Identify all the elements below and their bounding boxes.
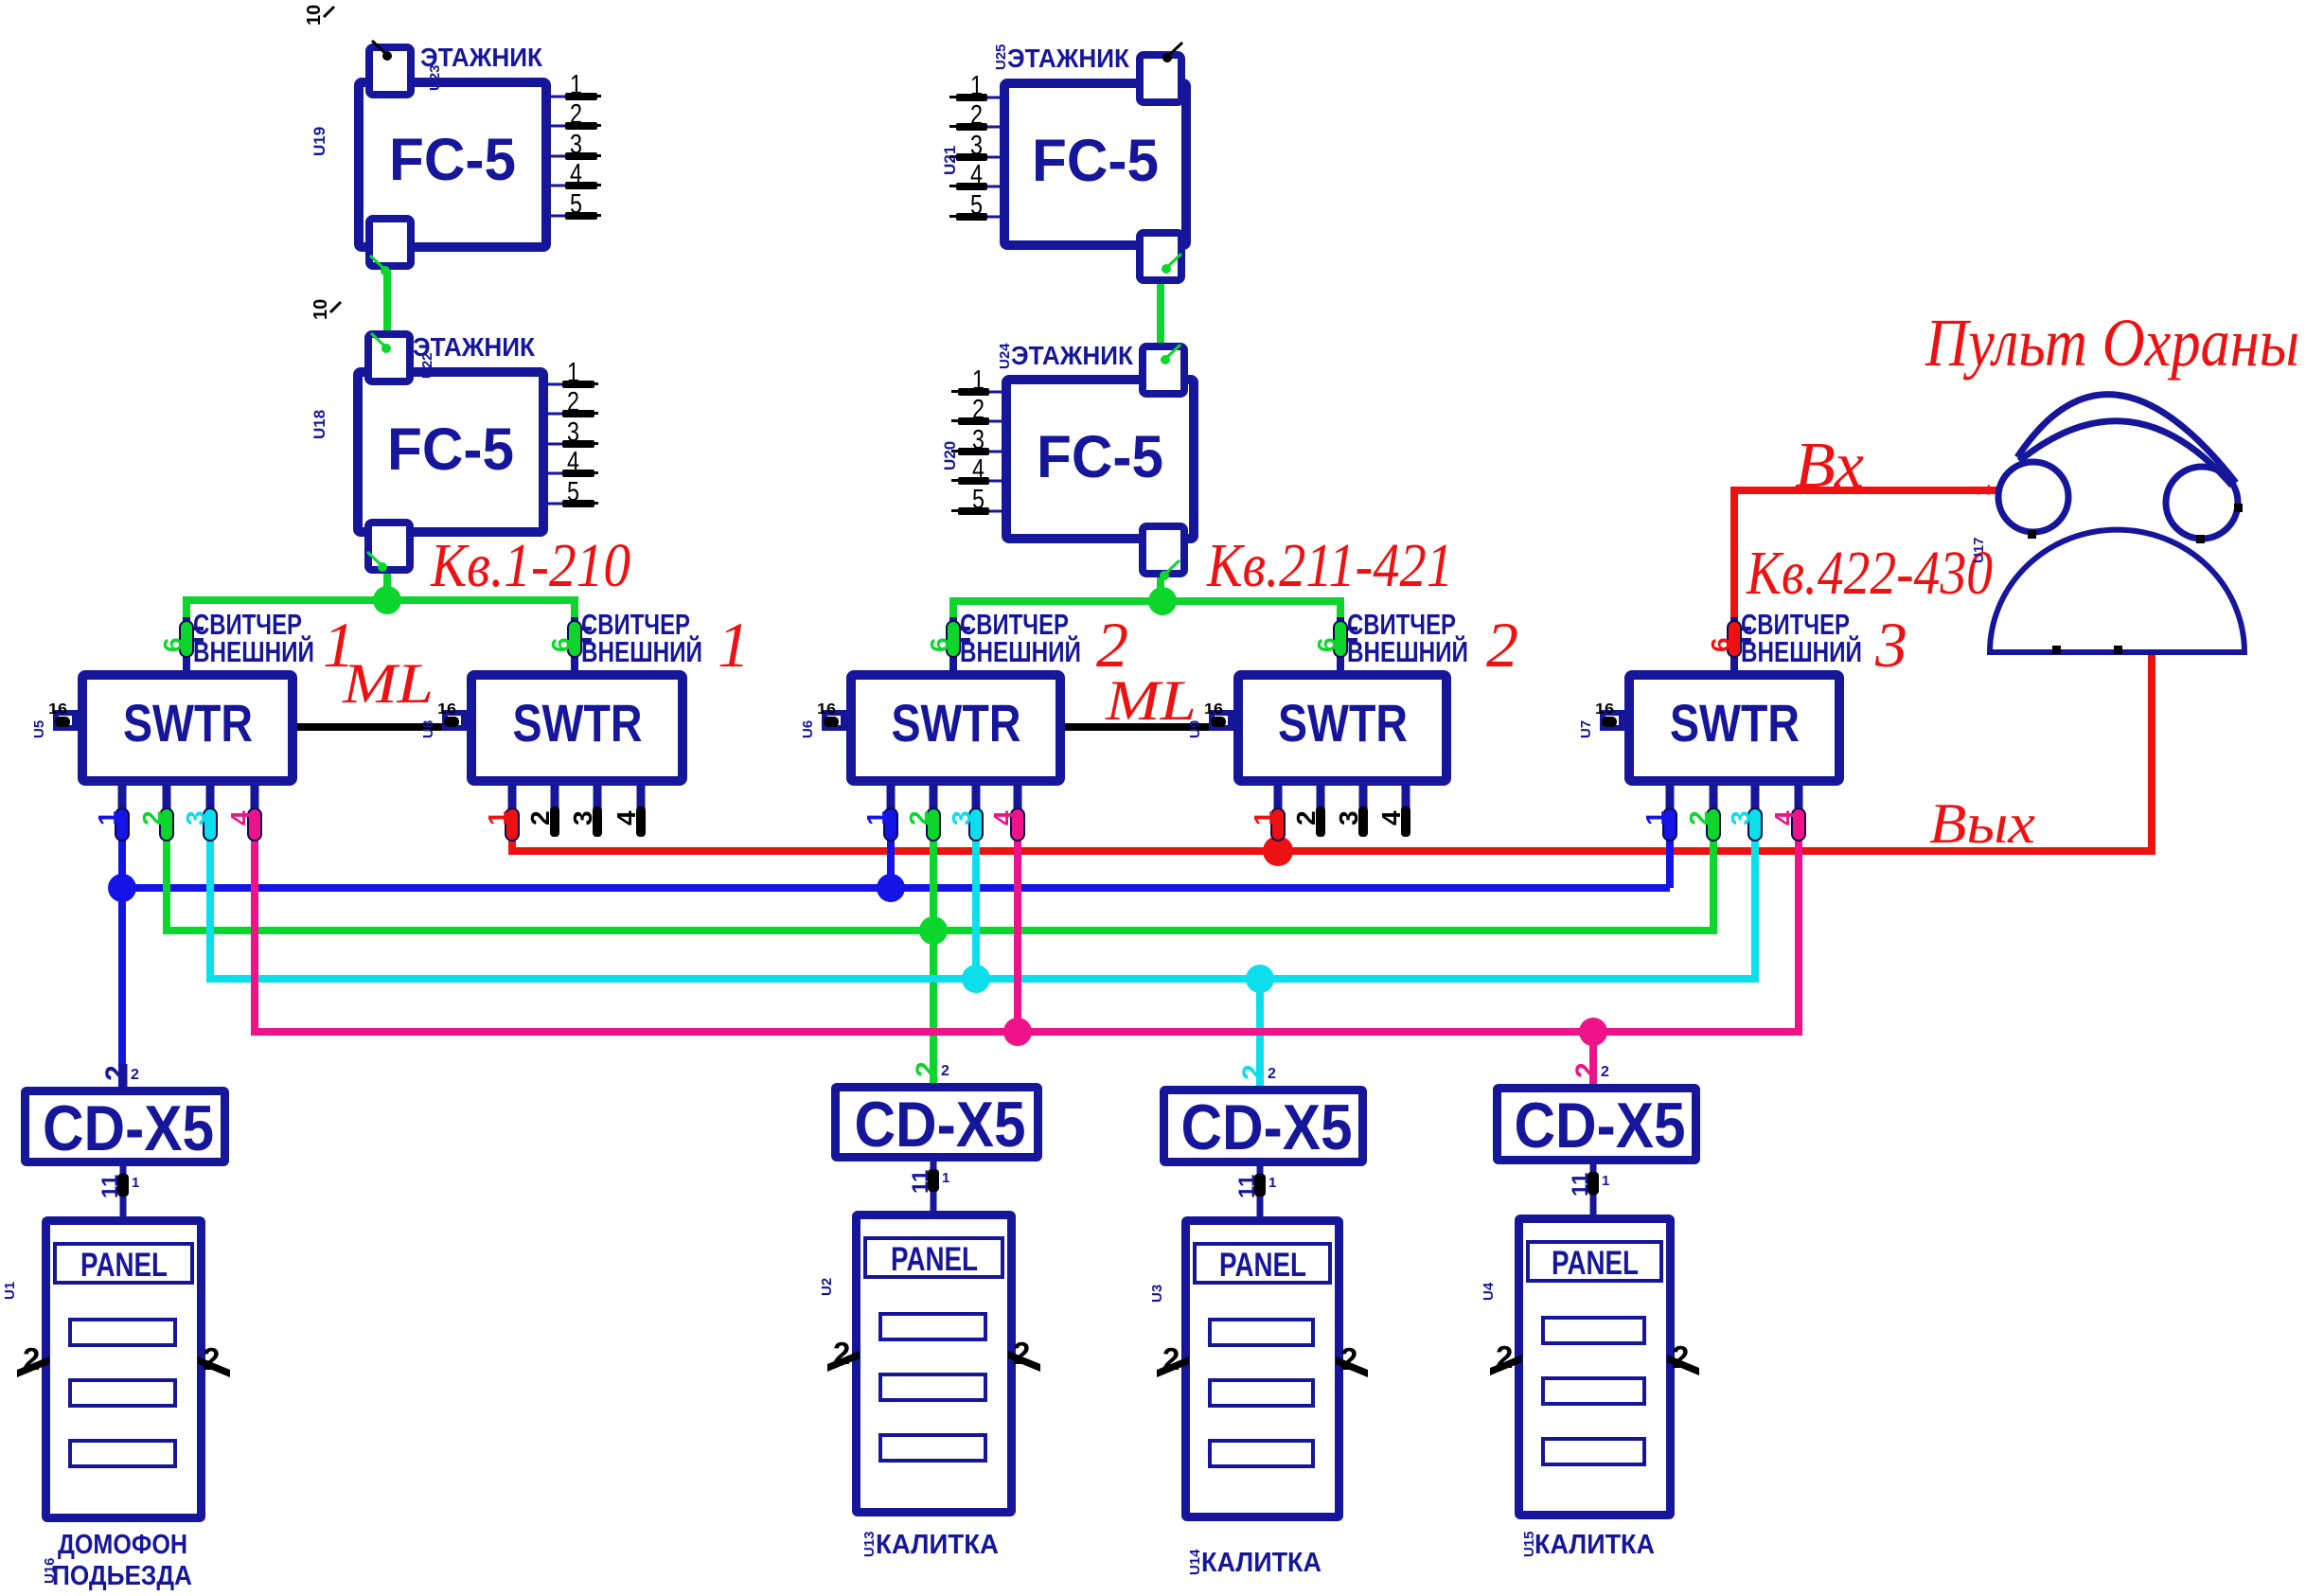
svg-text:2: 2: [1601, 1064, 1609, 1080]
svg-text:10: 10: [310, 299, 331, 320]
svg-text:U7: U7: [1578, 720, 1594, 738]
svg-text:3: 3: [1874, 609, 1907, 681]
svg-text:4: 4: [570, 159, 582, 189]
svg-text:2: 2: [833, 1336, 850, 1371]
svg-text:3: 3: [972, 425, 984, 455]
svg-text:Кв.211-421: Кв.211-421: [1206, 531, 1453, 600]
svg-text:1: 1: [567, 358, 579, 388]
svg-text:U18: U18: [310, 410, 328, 439]
svg-text:КАЛИТКА: КАЛИТКА: [1201, 1548, 1322, 1578]
svg-text:1: 1: [718, 609, 750, 681]
svg-text:2: 2: [1570, 1062, 1602, 1078]
svg-text:ЭТАЖНИК: ЭТАЖНИК: [1011, 341, 1134, 370]
svg-text:4: 4: [225, 810, 255, 825]
svg-text:2: 2: [1162, 1341, 1180, 1376]
svg-text:FC-5: FC-5: [1037, 424, 1163, 490]
svg-text:16: 16: [48, 701, 67, 718]
svg-text:U17: U17: [1971, 537, 1987, 563]
svg-text:Кв.1-210: Кв.1-210: [430, 531, 630, 600]
svg-text:1: 1: [972, 365, 984, 396]
svg-text:2: 2: [972, 395, 984, 425]
svg-text:16: 16: [817, 701, 836, 718]
svg-text:6: 6: [546, 637, 576, 652]
svg-text:2: 2: [137, 810, 167, 825]
svg-text:1: 1: [942, 1170, 949, 1186]
svg-text:4: 4: [972, 454, 984, 485]
svg-text:2: 2: [567, 387, 579, 417]
svg-text:4: 4: [1376, 810, 1406, 825]
svg-text:3: 3: [570, 130, 582, 160]
svg-text:CD-X5: CD-X5: [1515, 1090, 1686, 1162]
svg-text:ЭТАЖНИК: ЭТАЖНИК: [1007, 44, 1130, 73]
svg-text:U3: U3: [1149, 1285, 1165, 1303]
svg-text:U8: U8: [420, 720, 436, 738]
svg-text:PANEL: PANEL: [80, 1247, 168, 1284]
svg-text:U19: U19: [310, 127, 328, 156]
svg-text:6: 6: [158, 637, 187, 652]
svg-text:Кв.422-430: Кв.422-430: [1746, 539, 1993, 608]
svg-text:U24: U24: [997, 343, 1013, 369]
svg-text:1: 1: [970, 71, 983, 101]
svg-text:1: 1: [1971, 485, 1995, 496]
svg-text:SWTR: SWTR: [123, 693, 253, 753]
svg-text:U23: U23: [427, 64, 443, 91]
svg-text:ВНЕШНИЙ: ВНЕШНИЙ: [193, 634, 314, 668]
svg-text:U5: U5: [31, 720, 47, 738]
svg-text:2: 2: [1291, 810, 1321, 825]
svg-text:10: 10: [304, 5, 325, 26]
svg-text:4: 4: [567, 447, 579, 477]
svg-text:Вх: Вх: [1795, 429, 1864, 501]
svg-text:2: 2: [570, 99, 582, 130]
svg-text:1: 1: [1249, 810, 1278, 825]
svg-text:11: 11: [1568, 1173, 1593, 1197]
svg-text:U20: U20: [941, 441, 959, 470]
svg-text:1: 1: [1641, 810, 1670, 825]
svg-text:U9: U9: [1187, 720, 1203, 738]
svg-text:2: 2: [970, 100, 983, 131]
svg-text:3: 3: [1726, 810, 1755, 825]
svg-text:FC-5: FC-5: [387, 417, 514, 483]
svg-text:2: 2: [1340, 1341, 1357, 1376]
svg-text:3: 3: [947, 810, 976, 825]
svg-text:U22: U22: [419, 352, 435, 379]
svg-text:2: 2: [941, 1063, 949, 1079]
svg-text:4: 4: [970, 160, 983, 190]
svg-text:ПОДЬЕЗДА: ПОДЬЕЗДА: [52, 1561, 192, 1591]
svg-text:U21: U21: [941, 146, 959, 175]
svg-text:CD-X5: CD-X5: [1181, 1091, 1353, 1163]
svg-text:5: 5: [972, 485, 984, 515]
svg-text:SWTR: SWTR: [892, 693, 1021, 753]
svg-text:3: 3: [970, 131, 983, 161]
svg-text:U13: U13: [861, 1531, 878, 1557]
svg-text:2: 2: [100, 1065, 132, 1081]
svg-text:5: 5: [567, 477, 579, 507]
svg-text:1: 1: [1268, 1175, 1276, 1191]
svg-text:16: 16: [1204, 701, 1223, 718]
svg-text:FC-5: FC-5: [389, 127, 516, 193]
svg-text:PANEL: PANEL: [1219, 1247, 1306, 1284]
svg-text:4: 4: [612, 810, 641, 825]
svg-text:1: 1: [861, 810, 891, 825]
svg-text:16: 16: [437, 701, 456, 718]
svg-text:Вых: Вых: [1929, 792, 2035, 855]
svg-text:SWTR: SWTR: [1278, 693, 1408, 753]
svg-text:3: 3: [181, 810, 210, 825]
svg-text:4: 4: [1769, 810, 1799, 825]
svg-text:ВНЕШНИЙ: ВНЕШНИЙ: [960, 634, 1081, 668]
svg-text:2: 2: [911, 1061, 942, 1077]
svg-text:Пульт Охраны: Пульт Охраны: [1925, 305, 2299, 381]
svg-text:U16: U16: [42, 1557, 58, 1584]
svg-text:ВНЕШНИЙ: ВНЕШНИЙ: [581, 634, 702, 668]
svg-text:U15: U15: [1521, 1531, 1537, 1557]
svg-text:3: 3: [1334, 810, 1363, 825]
svg-text:2: 2: [131, 1067, 139, 1083]
svg-text:5: 5: [970, 190, 983, 221]
svg-text:ML: ML: [1105, 669, 1197, 732]
svg-text:11: 11: [1234, 1175, 1260, 1198]
svg-text:1: 1: [93, 810, 122, 825]
svg-text:2: 2: [1237, 1064, 1268, 1080]
svg-text:11: 11: [98, 1175, 123, 1198]
svg-text:2: 2: [1684, 810, 1713, 825]
svg-text:PANEL: PANEL: [891, 1241, 978, 1278]
svg-text:2: 2: [1496, 1339, 1513, 1374]
svg-text:1: 1: [1602, 1173, 1609, 1189]
svg-text:16: 16: [1595, 701, 1614, 718]
svg-text:3: 3: [567, 417, 579, 448]
svg-text:2: 2: [203, 1341, 220, 1376]
svg-text:U6: U6: [800, 720, 816, 738]
svg-text:1: 1: [570, 70, 582, 100]
svg-text:PANEL: PANEL: [1552, 1245, 1639, 1282]
svg-text:3: 3: [568, 810, 597, 825]
svg-text:2: 2: [1013, 1336, 1030, 1371]
svg-text:2: 2: [1268, 1066, 1276, 1082]
svg-text:6: 6: [1312, 637, 1341, 652]
svg-text:ВНЕШНИЙ: ВНЕШНИЙ: [1741, 634, 1862, 668]
svg-text:ДОМОФОН: ДОМОФОН: [58, 1530, 187, 1560]
svg-text:2: 2: [1672, 1339, 1689, 1374]
svg-text:U2: U2: [819, 1278, 835, 1296]
svg-text:SWTR: SWTR: [1670, 693, 1800, 753]
svg-text:ВНЕШНИЙ: ВНЕШНИЙ: [1347, 634, 1468, 668]
svg-text:U25: U25: [993, 44, 1009, 70]
svg-text:CD-X5: CD-X5: [855, 1089, 1026, 1161]
svg-text:5: 5: [570, 189, 582, 220]
svg-text:6: 6: [925, 637, 954, 652]
svg-text:1: 1: [483, 810, 512, 825]
svg-text:U1: U1: [2, 1282, 18, 1300]
svg-text:SWTR: SWTR: [513, 693, 643, 753]
svg-text:2: 2: [23, 1341, 40, 1376]
svg-text:КАЛИТКА: КАЛИТКА: [1534, 1530, 1655, 1560]
svg-text:U4: U4: [1481, 1282, 1497, 1301]
svg-text:2: 2: [904, 810, 933, 825]
svg-text:4: 4: [988, 810, 1018, 825]
svg-text:2: 2: [1486, 609, 1518, 681]
svg-text:2: 2: [525, 810, 555, 825]
svg-text:CD-X5: CD-X5: [43, 1092, 214, 1164]
svg-text:1: 1: [132, 1175, 139, 1191]
svg-text:6: 6: [1706, 637, 1735, 652]
svg-text:ML: ML: [342, 652, 434, 715]
svg-text:11: 11: [908, 1170, 933, 1194]
svg-text:КАЛИТКА: КАЛИТКА: [876, 1530, 999, 1560]
svg-text:FC-5: FC-5: [1032, 128, 1159, 194]
svg-text:U14: U14: [1187, 1549, 1203, 1575]
